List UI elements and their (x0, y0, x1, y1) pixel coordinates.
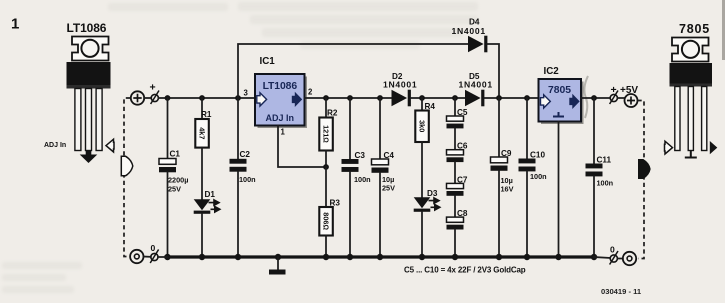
package leg 3 (96, 89, 102, 151)
input direction arrow (open, white) (121, 156, 133, 175)
svg-text:100n: 100n (597, 179, 614, 188)
package input arrow (open, pointing left at leg 3) (106, 139, 114, 152)
package ground mark (685, 151, 697, 158)
capacitor C7 (447, 183, 464, 188)
diode D2 1N4001 (383, 72, 465, 106)
node ADJ (323, 164, 329, 170)
svg-text:2: 2 (308, 88, 313, 97)
package tab with notches (72, 37, 109, 61)
svg-text:C8: C8 (457, 209, 468, 218)
node C11 (591, 95, 597, 101)
svg-text:C9: C9 (501, 149, 512, 158)
wire connector to rail (158, 256, 168, 258)
wire left 0 terminal to connector (144, 256, 151, 258)
scan artifact squiggle near IC2 output (584, 76, 588, 118)
svg-text:1: 1 (281, 128, 286, 137)
node C3 bottom (347, 254, 353, 260)
svg-text:C5: C5 (457, 108, 468, 117)
svg-text:3k0: 3k0 (418, 120, 427, 132)
0V left terminal (130, 250, 143, 263)
svg-text:R3: R3 (330, 199, 341, 208)
capacitor C2 (100n) (230, 98, 256, 257)
output terminal (+5V) (625, 94, 638, 107)
svg-text:IC2: IC2 (544, 66, 560, 77)
package leg 2 (86, 89, 92, 151)
node R4 (419, 95, 425, 101)
output arrow solid (292, 92, 302, 107)
svg-text:3: 3 (244, 89, 249, 98)
node D4 return / C9 (496, 95, 502, 101)
svg-text:0: 0 (610, 245, 615, 255)
svg-text:R2: R2 (327, 109, 338, 118)
package body (670, 63, 713, 87)
LED D1 (194, 190, 220, 257)
0V bottom rail (166, 255, 594, 258)
svg-text:1N4001: 1N4001 (383, 80, 417, 90)
wire: IC1 pin1 to ADJ node (278, 126, 326, 168)
wire: D4 cathode down to main rail (487, 44, 499, 98)
wire: top rail from connector to IC1 pin 3 (158, 97, 255, 99)
svg-text:100n: 100n (354, 175, 371, 184)
svg-text:D1: D1 (205, 190, 216, 199)
node D1 bottom (199, 254, 205, 260)
resistor R4 (3k0) (415, 98, 435, 197)
diode D4 1N4001 (452, 18, 488, 53)
left 0 connector (150, 250, 158, 264)
svg-text:C4: C4 (384, 151, 395, 160)
resistor R2 (121 Ohm) (319, 98, 338, 167)
output arrow solid (569, 94, 579, 109)
package output arrow (down, solid) (80, 151, 98, 163)
svg-text:25V: 25V (168, 185, 181, 194)
input terminal (+) (131, 91, 144, 104)
capacitor C4 (10u 25V) (372, 98, 396, 257)
output direction arrow (solid) (638, 159, 651, 179)
output connector (610, 91, 618, 105)
node C8 bottom (452, 254, 458, 260)
dashed link output to 0 terminal (638, 101, 645, 259)
node C3 (347, 95, 353, 101)
svg-text:100n: 100n (530, 172, 547, 181)
svg-text:806Ω: 806Ω (322, 212, 331, 230)
svg-text:1N4001: 1N4001 (452, 26, 486, 36)
svg-text:25V: 25V (382, 184, 395, 193)
svg-text:C7: C7 (457, 175, 468, 184)
svg-text:ADJ In: ADJ In (266, 113, 295, 123)
svg-text:+: + (611, 84, 617, 96)
svg-text:121Ω: 121Ω (322, 125, 331, 143)
package output arrow (solid) (710, 141, 718, 154)
input connector (151, 91, 159, 105)
svg-text:R1: R1 (201, 110, 212, 119)
0V right terminal (623, 252, 636, 265)
capacitor C8 (447, 217, 464, 222)
svg-text:030419 - 11: 030419 - 11 (601, 287, 642, 296)
svg-text:16V: 16V (501, 185, 514, 194)
node C9 bottom (496, 254, 502, 260)
svg-text:1N4001: 1N4001 (459, 80, 493, 90)
dashed link from package to input terminal (124, 98, 130, 257)
svg-text:0: 0 (151, 243, 156, 253)
ground (269, 257, 286, 275)
input arrow open (541, 95, 551, 108)
resistor R1 (4k7) (195, 98, 212, 199)
node C4 (377, 95, 383, 101)
node C2 / D4 branch (235, 95, 241, 101)
7805 package drawing (top-right) (665, 22, 718, 158)
svg-text:C10: C10 (530, 151, 545, 160)
IC2 shadow (541, 82, 584, 125)
capacitor C5 (447, 116, 464, 121)
svg-text:2200µ: 2200µ (168, 176, 188, 185)
wire: IC2 ground to 0 rail (558, 122, 560, 258)
node C4 bottom (377, 254, 383, 260)
capacitor C6 (447, 150, 464, 155)
svg-text:C5 ... C10 = 4x 22F / 2V3 Gold: C5 ... C10 = 4x 22F / 2V3 GoldCap (404, 266, 526, 275)
wire: main rail IC1 out to D2 (305, 97, 392, 99)
node C11 bottom (591, 254, 597, 260)
right 0 connector (610, 251, 618, 265)
package leg 1 (675, 87, 680, 151)
svg-text:C1: C1 (170, 150, 181, 159)
svg-text:C6: C6 (457, 142, 468, 151)
package tab hole (682, 41, 699, 58)
wire: D4 bypass rail (238, 44, 468, 98)
wire connector to terminal (617, 97, 624, 99)
package leg 2 (688, 87, 693, 151)
wire: IC2 output (581, 97, 610, 99)
input arrow open (257, 93, 267, 106)
package leg 3 (702, 87, 707, 151)
wire terminal to connector (144, 97, 151, 99)
svg-text:D3: D3 (427, 189, 438, 198)
svg-text:LT1086: LT1086 (67, 21, 107, 35)
package leg 1 (75, 89, 81, 151)
svg-text:1: 1 (11, 16, 19, 33)
LT1086 package drawing (top-left) (44, 21, 114, 163)
capacitor C9 (10u 16V) (491, 98, 514, 257)
svg-text:7805: 7805 (548, 85, 571, 96)
capacitor C3 (100n) (342, 98, 371, 257)
node C5 (452, 95, 458, 101)
package tab with notches (672, 38, 709, 62)
svg-text:4k7: 4k7 (198, 127, 207, 139)
wire connector to right 0 terminal (617, 258, 622, 260)
svg-text:7805: 7805 (679, 22, 710, 36)
package body (67, 62, 111, 89)
svg-text:C3: C3 (355, 151, 366, 160)
LED D3 (414, 189, 440, 257)
regulator IC2 7805 (539, 66, 582, 122)
svg-text:R4: R4 (425, 102, 436, 111)
node C10 (524, 95, 530, 101)
svg-text:C2: C2 (240, 150, 251, 159)
node R3 bottom (323, 254, 329, 260)
node C10 bottom (524, 254, 530, 260)
node C1 bottom (164, 254, 170, 260)
resistor R3 (806 Ohm) (319, 167, 340, 257)
wire rail to right 0 connector (594, 257, 610, 258)
capacitor C10 (100n) (519, 98, 547, 257)
node IC2 ground bottom (555, 254, 561, 260)
svg-text:ADJ In: ADJ In (44, 142, 66, 149)
package input arrow (open) (665, 141, 673, 154)
diode D5 1N4001 (459, 72, 539, 106)
capacitor C1 (2200u 25V) (159, 98, 188, 257)
svg-text:C11: C11 (597, 156, 612, 165)
op-amp/regulator IC1 LT1086 (244, 56, 314, 126)
node R1 (199, 95, 205, 101)
svg-text:+: + (150, 82, 156, 94)
svg-text:IC1: IC1 (260, 56, 276, 67)
node R2 (323, 95, 329, 101)
node C1 (165, 95, 171, 101)
package tab hole (81, 40, 98, 57)
node D3 bottom (419, 254, 425, 260)
node C2 bottom (235, 254, 241, 260)
node ground stem (275, 254, 281, 260)
svg-text:100n: 100n (239, 175, 256, 184)
GoldCap stack C5-C8 (447, 98, 468, 257)
svg-text:LT1086: LT1086 (263, 81, 298, 92)
capacitor C11 (100n) (586, 98, 614, 257)
IC1 shadow (258, 77, 308, 129)
ground mark inside (553, 112, 564, 117)
